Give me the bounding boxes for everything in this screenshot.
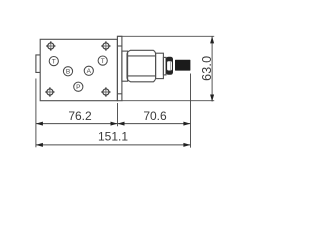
svg-text:A: A <box>87 68 92 75</box>
svg-text:P: P <box>76 84 80 91</box>
svg-text:B: B <box>66 69 70 76</box>
svg-text:63.0: 63.0 <box>200 56 214 81</box>
svg-text:T: T <box>101 58 105 65</box>
svg-text:70.6: 70.6 <box>143 109 167 123</box>
svg-text:151.1: 151.1 <box>98 130 128 144</box>
svg-text:T: T <box>52 58 56 65</box>
svg-text:76.2: 76.2 <box>68 109 92 123</box>
